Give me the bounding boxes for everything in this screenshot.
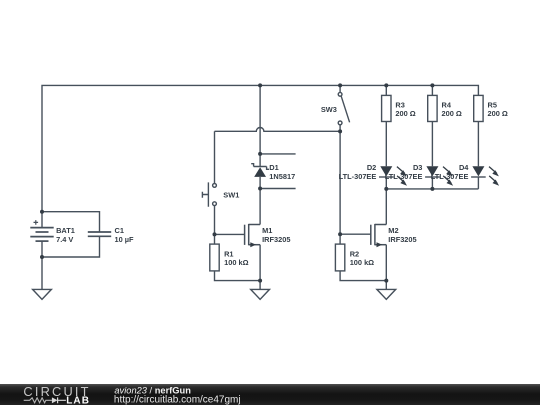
- node bus/SW3 junction: [338, 83, 342, 87]
- svg-text:D1: D1: [269, 163, 278, 172]
- svg-text:LTL-307EE: LTL-307EE: [431, 172, 469, 181]
- transistor M2: [371, 224, 387, 245]
- svg-text:IRF3205: IRF3205: [262, 235, 290, 244]
- wire D1 anode to M1 drain: [259, 177, 261, 225]
- footer title: [110, 384, 540, 405]
- svg-text:D3: D3: [413, 163, 422, 172]
- svg-text:D4: D4: [459, 163, 469, 172]
- resistor R5: [474, 95, 483, 121]
- svg-text:200 Ω: 200 Ω: [442, 109, 462, 118]
- wire hop corner down to SW1: [214, 131, 216, 183]
- resistor R3: [382, 95, 391, 121]
- svg-text:R1: R1: [224, 249, 233, 258]
- wire R4 leads: [431, 85, 433, 166]
- node bus/R3 junction: [384, 83, 388, 87]
- svg-text:R5: R5: [488, 100, 497, 109]
- ground (battery): [33, 289, 52, 299]
- wire R3 leads: [385, 85, 387, 166]
- svg-text:10 µF: 10 µF: [115, 235, 135, 244]
- svg-text:IRF3205: IRF3205: [388, 235, 416, 244]
- node D2 cathode/LED bus junction: [384, 187, 388, 191]
- svg-text:LTL-307EE: LTL-307EE: [339, 172, 377, 181]
- node D1 anode junction: [258, 187, 262, 191]
- svg-text:M2: M2: [388, 226, 398, 235]
- ground (M1): [251, 289, 270, 299]
- svg-text:R2: R2: [350, 249, 359, 258]
- node bus/R4 junction: [430, 83, 434, 87]
- node SW3/SW1 wire junction: [338, 129, 342, 133]
- wire SW1 bottom to gate node: [214, 206, 216, 244]
- svg-text:D2: D2: [367, 163, 376, 172]
- wire M2 source to ground: [385, 245, 387, 290]
- LED D2: [379, 166, 407, 185]
- wire battery bottom lead to ground: [41, 241, 43, 289]
- CircuitLab logo: [0, 384, 110, 405]
- LED D3: [425, 166, 453, 185]
- svg-text:1N5817: 1N5817: [269, 172, 295, 181]
- footer bar: [0, 384, 540, 405]
- svg-text:200 Ω: 200 Ω: [395, 109, 415, 118]
- wire M1 source to ground: [259, 245, 261, 290]
- wire D1 cathode stub: [260, 153, 296, 155]
- node bus/M1-drain junction: [258, 83, 262, 87]
- wire R2 bottom to M2 source node: [340, 271, 386, 281]
- switch SW1: [202, 182, 216, 206]
- wire R1 bottom to M1 source node: [215, 271, 261, 281]
- node D3 cathode/LED bus junction: [430, 187, 434, 191]
- resistor R4: [428, 95, 437, 121]
- svg-text:LTL-307EE: LTL-307EE: [385, 172, 423, 181]
- wire LED cathode bus: [386, 177, 478, 225]
- battery BAT1: [30, 220, 53, 241]
- wire SW3 top lead: [339, 85, 341, 92]
- resistor R1: [210, 244, 219, 271]
- wire SW1 to SW3 with hop over M1 column: [215, 128, 341, 132]
- wire capacitor branch bottom: [42, 236, 100, 257]
- svg-text:R4: R4: [442, 100, 452, 109]
- ground (M2): [377, 289, 396, 299]
- wire M2 gate lead: [340, 233, 371, 235]
- wire top bus with left rail and drop to R5: [42, 85, 478, 211]
- svg-text:BAT1: BAT1: [56, 226, 75, 235]
- wire battery top lead: [41, 212, 43, 228]
- svg-text:200 Ω: 200 Ω: [488, 109, 508, 118]
- svg-text:SW3: SW3: [321, 105, 337, 114]
- node battery positive junction: [40, 210, 44, 214]
- node M1 source/R1 ground junction: [258, 279, 262, 283]
- node battery negative junction: [40, 255, 44, 259]
- svg-text:R3: R3: [395, 100, 404, 109]
- node M2 gate/R2 junction: [338, 232, 342, 236]
- switch SW3: [338, 92, 349, 124]
- wire SW3 bottom to M2 gate node: [339, 125, 341, 244]
- node M1 gate/R1 junction: [213, 232, 217, 236]
- svg-text:100 kΩ: 100 kΩ: [350, 258, 374, 267]
- svg-text:http://circuitlab.com/ce47gmj: http://circuitlab.com/ce47gmj: [114, 394, 241, 405]
- svg-text:SW1: SW1: [223, 191, 239, 200]
- wire capacitor branch top: [42, 212, 100, 232]
- svg-text:7.4 V: 7.4 V: [56, 235, 73, 244]
- svg-text:LAB: LAB: [66, 395, 90, 405]
- wire M1 gate lead: [215, 233, 245, 235]
- wire M1 column from bus to D1 cathode: [259, 85, 261, 166]
- diode D1: [251, 164, 269, 177]
- capacitor C1: [88, 232, 111, 236]
- node M2 source/R2 ground junction: [384, 279, 388, 283]
- wire D1 anode stub: [260, 188, 296, 190]
- LED D4: [471, 166, 499, 185]
- node D1 cathode junction: [258, 152, 262, 156]
- wire R5 leads: [477, 122, 479, 167]
- transistor M1: [245, 224, 261, 245]
- svg-text:100 kΩ: 100 kΩ: [224, 258, 248, 267]
- svg-text:C1: C1: [115, 226, 124, 235]
- svg-text:M1: M1: [262, 226, 272, 235]
- resistor R2: [335, 244, 344, 271]
